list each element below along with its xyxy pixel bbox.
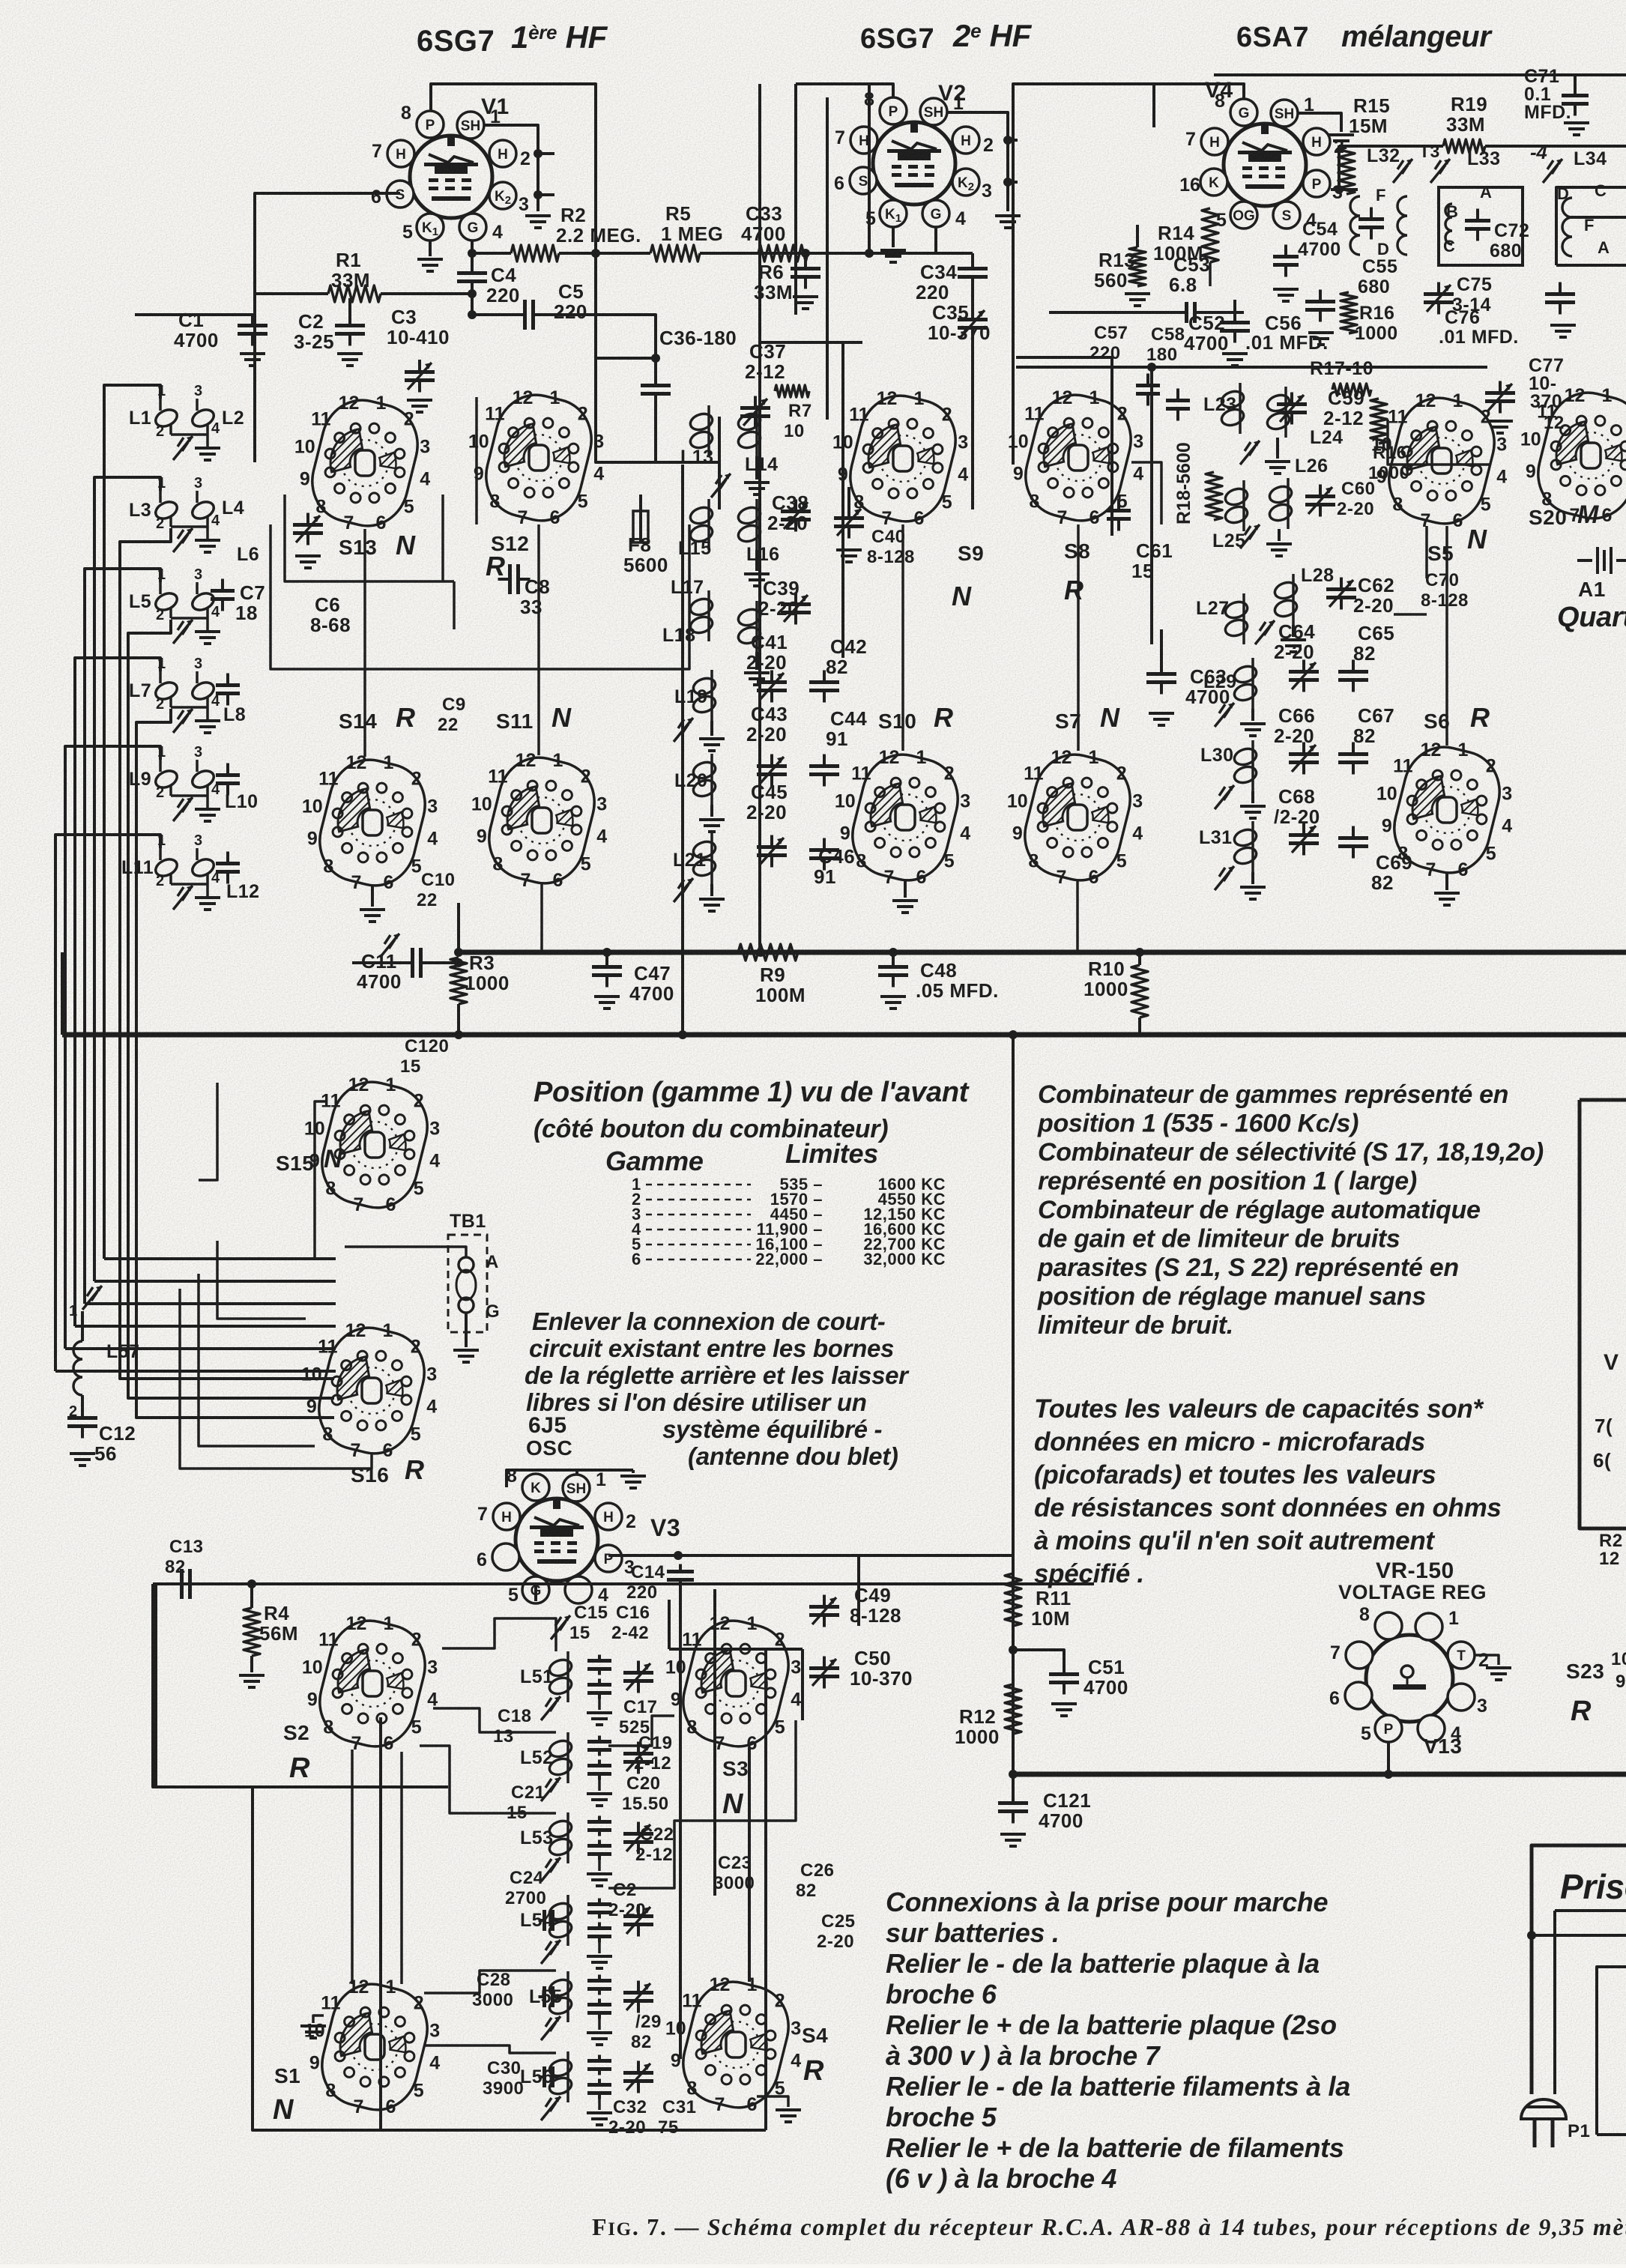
capacitor C33 <box>804 253 807 264</box>
wire C34-C35 <box>971 282 974 315</box>
capacitor C49 variable <box>809 1595 839 1627</box>
coil pair L7 L8 <box>153 680 180 703</box>
coil L29 <box>1233 658 1259 709</box>
ground R4 <box>250 1656 253 1672</box>
ground V1 cathode2 <box>525 216 551 228</box>
wire stair s2-ladder3 <box>420 1746 556 1813</box>
wire R2 to R5 <box>559 252 650 255</box>
capacitor C40 variable <box>834 506 864 539</box>
plug P1 <box>1521 2099 1566 2119</box>
wire rail drop to P <box>1338 146 1341 190</box>
capacitor C43 variable <box>757 755 787 787</box>
coil L30 <box>1233 740 1259 791</box>
wire S3 box lines <box>668 1600 671 1649</box>
wire bus drop left <box>61 952 64 1035</box>
wire S9 region <box>845 462 973 463</box>
ground TB1 <box>465 1313 468 1347</box>
wire TB1 A <box>345 1247 466 1257</box>
wire R1 east <box>381 292 472 295</box>
wire coil row to bundle <box>75 658 160 1326</box>
capacitor C36 <box>641 374 671 406</box>
coil L34 <box>1562 198 1572 256</box>
capacitor C58 <box>1166 389 1190 421</box>
wire S8 box <box>1016 356 1112 359</box>
wire left drop to S blocks <box>153 1584 448 1787</box>
wire top right rail <box>1214 73 1544 76</box>
wire S3 box <box>669 1648 907 1650</box>
capacitor C63 <box>1146 662 1176 695</box>
coil L55 <box>548 1971 574 2022</box>
wire coil row to bundle <box>94 477 160 1281</box>
capacitor C66 variable <box>1289 743 1319 775</box>
capacitor C64 variable <box>1289 660 1319 692</box>
rotary switch S8 <box>1008 387 1143 529</box>
crystal A1 <box>1577 559 1592 562</box>
wire V2 plate drop <box>796 84 869 253</box>
capacitor C34 <box>971 253 974 264</box>
wire V4 top <box>1154 84 1244 127</box>
wire S2 pin drops <box>351 1750 354 1984</box>
resistor R1 <box>328 285 381 302</box>
capacitor C50 variable <box>809 1657 839 1689</box>
tube V4 <box>1224 124 1306 206</box>
wire V1 plate top <box>431 84 596 420</box>
coil pair L3 L4 <box>153 499 180 522</box>
coil L16 <box>737 499 763 550</box>
capacitor C77 variable <box>1485 381 1515 414</box>
wire stair s3-ladder <box>608 1716 674 1746</box>
resistor R5 <box>650 245 700 261</box>
capacitor C56 <box>1305 290 1335 322</box>
coil L57 <box>73 1341 82 1395</box>
capacitor C52 <box>1220 311 1250 343</box>
wire bundle2 <box>120 528 334 1379</box>
ground L29 <box>1251 709 1254 721</box>
resistor R18 <box>1206 472 1222 520</box>
rotary switch S2 <box>302 1612 438 1755</box>
resistor R12 <box>1005 1684 1021 1734</box>
resistor R2 <box>511 245 559 261</box>
coil L19 <box>692 670 718 721</box>
rotary switch S11 <box>471 749 607 892</box>
capacitor C71 <box>1562 84 1589 116</box>
wire V2 k1 ground <box>892 226 895 247</box>
rotary switch S7 <box>1007 746 1143 889</box>
wire stair s2-ladder2 <box>433 1708 556 1732</box>
bus horizontal lower <box>62 1032 1626 1038</box>
coil L26 <box>1268 478 1294 529</box>
wire V4 sh <box>1296 113 1341 132</box>
wire long vertical x911 <box>681 465 684 1035</box>
wire stair s1-ladder <box>424 1971 556 1993</box>
rotary switch S12 <box>468 387 604 529</box>
wire top rail y195 <box>1339 145 1443 148</box>
coil L18 <box>737 601 763 652</box>
wire long vertical x1014 <box>758 84 761 952</box>
coil L20 <box>692 754 718 805</box>
capacitor C30 series <box>539 2066 559 2087</box>
ground L18 <box>755 652 758 670</box>
coil L13 <box>689 405 715 456</box>
resistor R19 <box>1443 139 1485 153</box>
wire C5 row <box>472 313 525 316</box>
resistor R4 <box>244 1608 260 1656</box>
capacitor C48 <box>892 952 895 962</box>
resistor R15 <box>1338 148 1355 194</box>
tube V1 <box>410 136 492 218</box>
wire S15 box <box>199 1083 217 1180</box>
capacitor C69 <box>1338 826 1368 859</box>
rotary switch S6 <box>1376 739 1512 881</box>
wire V1 k1 <box>429 240 432 256</box>
wire coil row to bundle <box>65 746 160 1349</box>
capacitor C10 <box>216 763 240 796</box>
bus y488 right <box>1016 366 1487 369</box>
ground L26 <box>1278 529 1281 541</box>
ground S1 <box>313 2016 324 2023</box>
wire V1 screen to ground rail <box>483 125 538 211</box>
coil L33 <box>1445 204 1452 244</box>
wire V1 grid <box>471 240 474 253</box>
rotary switch S16 <box>301 1319 437 1462</box>
wire S16 staircases <box>315 1280 328 1283</box>
resistor R11 <box>1005 1573 1021 1626</box>
wire grid bus <box>472 252 511 255</box>
ground L30 <box>1251 791 1254 803</box>
tube V2 <box>873 122 955 205</box>
capacitor C72 <box>1465 209 1490 241</box>
bus bottom <box>1013 1772 1626 1777</box>
capacitor C68 variable <box>1289 823 1319 856</box>
capacitor C42 <box>809 671 839 703</box>
ground L14 <box>755 456 758 480</box>
resistor R16 <box>1341 292 1357 333</box>
ground L21 <box>710 884 713 896</box>
rotary switch S20 <box>1520 384 1626 527</box>
wire ladder right verticals <box>679 1584 682 2059</box>
wire y417 series cap <box>1049 311 1182 314</box>
wire prise feed 2 <box>1532 1934 1626 1937</box>
caps at L55 <box>587 1975 611 1995</box>
wire V3 G <box>534 1584 537 1601</box>
coil L15 <box>689 499 715 550</box>
ground V2 <box>995 216 1021 228</box>
fuse F8 <box>639 495 642 511</box>
capacitor C62 variable <box>1326 578 1356 610</box>
wire R5 east <box>700 252 973 255</box>
capacitor C76 <box>1545 282 1575 315</box>
wire row2 drops <box>363 529 366 757</box>
wire S2-S1 outer box <box>253 1787 568 2130</box>
resistor R14 vertical <box>1202 208 1218 262</box>
wire V3 plate east <box>598 1555 1626 1556</box>
capacitor C60 variable <box>1305 485 1335 517</box>
capacitor C6 variable <box>293 513 323 545</box>
ground S4 <box>757 2096 788 2107</box>
capacitor C59 variable <box>1277 393 1307 425</box>
coil L25 <box>1224 480 1250 531</box>
wire V2 plate top <box>796 84 893 100</box>
rotary switch S15 <box>304 1074 440 1216</box>
coil L21 <box>692 833 718 884</box>
wire vertical x1104 <box>826 97 829 420</box>
wire divider vertical <box>1012 1035 1015 1774</box>
capacitor C12 <box>81 1395 84 1413</box>
ground L16 <box>755 550 758 571</box>
coil L31 <box>1233 821 1259 872</box>
wire coil row to bundle <box>55 835 160 1371</box>
junction R4 <box>247 1579 256 1588</box>
wire right C70 link <box>1394 613 1427 616</box>
rotary switch S1 <box>304 1976 440 2118</box>
wire right ladder rail <box>1425 526 1428 578</box>
capacitor C8 <box>498 564 531 594</box>
ground C12 <box>70 1454 95 1466</box>
capacitor C47 <box>605 952 608 962</box>
capacitor C61 <box>1107 499 1131 531</box>
capacitor C3 variable <box>418 360 421 367</box>
box right IF stage <box>1580 1100 1626 1528</box>
capacitor C54 <box>1273 245 1299 277</box>
ground V3 top <box>632 1470 635 1473</box>
capacitor C51 <box>1049 1663 1079 1695</box>
ground L31 <box>1251 872 1254 884</box>
capacitor C2 <box>348 298 351 321</box>
rotary switch S9 <box>832 387 968 530</box>
resistor R6 <box>758 245 808 261</box>
wire V2 screen rail <box>946 112 1008 211</box>
bus V3 row <box>153 1582 1094 1585</box>
resistor R9 <box>738 944 798 961</box>
capacitor C28 series <box>539 1986 559 2007</box>
capacitor C37 variable <box>740 396 770 429</box>
caps at L51 <box>587 1655 611 1675</box>
box T4 secondary <box>1556 187 1626 265</box>
coil L32 secondary <box>1397 196 1407 255</box>
ground S10 <box>904 880 907 898</box>
wire V2 grid down <box>936 226 973 253</box>
resistor R3 <box>450 958 467 1004</box>
capacitor C38 variable <box>781 500 811 532</box>
rotary switch S3 <box>665 1612 801 1755</box>
coil L53 <box>548 1812 574 1863</box>
ground S14 <box>371 886 374 907</box>
wire V3 top <box>507 1470 633 1487</box>
capacitor C4 <box>471 253 474 268</box>
capacitor C39 variable <box>781 593 811 625</box>
coil L56 <box>548 2051 574 2102</box>
wire top v2 rail <box>717 253 719 315</box>
capacitor C120 <box>216 852 240 884</box>
coil L28 <box>1273 574 1299 625</box>
wire V13 P to bus <box>1387 1742 1390 1774</box>
wire C5 east <box>534 315 656 381</box>
wire S3-S4 vertical <box>748 1747 751 1982</box>
wire S13 group rects <box>271 524 689 669</box>
coil L24 <box>1266 387 1292 438</box>
capacitor C35 variable <box>958 308 988 340</box>
ground L28 <box>1292 625 1295 637</box>
resistor R7 <box>775 385 809 397</box>
coil L32 primary <box>1350 196 1360 255</box>
capacitor C9 <box>216 674 240 706</box>
wire V13 T pin ground <box>1475 1655 1499 1665</box>
ground L24 <box>1276 438 1279 459</box>
capacitor C65 <box>1338 660 1368 692</box>
capacitor C75 variable <box>1424 282 1454 315</box>
capacitor C57 <box>1136 374 1160 406</box>
capacitor C11 <box>352 961 408 964</box>
capacitor C13 series in bus <box>170 1569 202 1599</box>
resistor R10 <box>1131 965 1148 1017</box>
ground V4 sh <box>1329 135 1354 147</box>
box inner battery <box>1597 1967 1626 2135</box>
wire S2 box <box>154 1584 157 1787</box>
ground L19 <box>710 721 713 736</box>
resistor R16 <box>1370 399 1387 444</box>
wire stair s2-ladder1 <box>442 1618 556 1651</box>
terminal strip TB1 <box>448 1235 487 1332</box>
coil L54 <box>548 1895 574 1946</box>
rotary switch S10 <box>835 746 970 889</box>
wire V4 plate to L32 <box>1331 188 1358 191</box>
capacitor C67 <box>1338 743 1368 775</box>
capacitor C14 <box>667 1564 694 1588</box>
wire S8 region <box>1131 462 1161 524</box>
caps at L54 <box>587 1899 611 1919</box>
wire prise feed 1 <box>1555 1909 1626 1912</box>
wire coil row to bundle <box>85 569 160 1304</box>
wire S5 region <box>1388 420 1491 465</box>
caps at L52 <box>587 1736 611 1756</box>
coil L51 <box>548 1651 574 1702</box>
ground V1 k1 <box>417 259 443 271</box>
coil L23 <box>1220 383 1246 434</box>
antenna trimmer <box>82 1286 102 1310</box>
coil L14 <box>737 405 763 456</box>
capacitor C121 <box>1012 1774 1015 1798</box>
coil L17 <box>689 590 715 641</box>
capacitor C41 variable <box>757 671 787 703</box>
resistor R13 <box>1129 247 1146 286</box>
box V4 stage <box>1013 84 1214 465</box>
caps at L53 <box>587 1816 611 1836</box>
box prise <box>1532 1845 1626 1918</box>
ground S6 <box>1445 873 1448 890</box>
coil pair L11 L12 <box>153 856 180 880</box>
rotary switch S13 <box>294 392 430 534</box>
bus horizontal upper <box>459 950 1626 955</box>
wire S12 S9 links <box>596 420 719 462</box>
wire bundle to S15 <box>104 1257 336 1260</box>
capacitor C5 <box>513 300 545 330</box>
caps at L56 <box>587 2055 611 2075</box>
rotary switch S4 <box>665 1974 801 2116</box>
wire R1 rail <box>255 292 328 295</box>
coil pair L5 +C7 <box>153 590 180 614</box>
capacitor C1 <box>251 315 254 321</box>
tube V3 <box>516 1499 598 1581</box>
coil L52 <box>548 1732 574 1783</box>
coil pair L1 L2 <box>153 407 180 430</box>
wire C51 stub <box>1013 1650 1064 1669</box>
coil L27 <box>1224 593 1250 644</box>
wire left drop <box>253 294 256 462</box>
capacitor C24 series <box>539 1910 559 1931</box>
capacitor C7 <box>211 579 235 611</box>
wire coil row to bundle <box>104 385 160 1259</box>
box T3 secondary <box>1439 187 1523 265</box>
capacitor C44 <box>809 755 839 787</box>
capacitor C55 <box>1358 208 1384 240</box>
ground L20 <box>710 805 713 817</box>
capacitor C45 variable <box>757 835 787 868</box>
wire S1 box left <box>379 1717 382 2130</box>
capacitor C46 <box>809 838 839 871</box>
wire vertical x1062 <box>794 84 797 315</box>
rotary switch S5 <box>1371 390 1507 532</box>
ground C40 <box>836 550 862 562</box>
tube V13 <box>1366 1635 1453 1722</box>
wire S pin to left <box>255 193 400 294</box>
wire x1125 long <box>841 342 844 658</box>
rotary switch S14 <box>302 752 438 894</box>
coil pair L9 L10 <box>153 768 180 791</box>
